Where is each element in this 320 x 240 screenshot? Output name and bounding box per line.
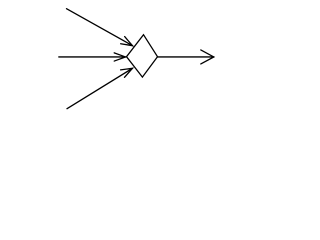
wire: incoming arrow shaft (horizontal middle) [59, 56, 126, 58]
merge diamond node [127, 35, 158, 77]
wire: incoming arrow shaft (top-left diagonal) [67, 9, 133, 46]
open arrowhead of outgoing arrow [201, 50, 214, 64]
arrowhead of horizontal arrow [114, 53, 125, 61]
wire: outgoing arrow shaft (right) [158, 56, 214, 58]
arrowhead of top-left arrow [121, 37, 133, 46]
arrowhead of bottom-left arrow [121, 68, 133, 77]
wire: incoming arrow shaft (bottom-left diagonal) [67, 68, 133, 108]
